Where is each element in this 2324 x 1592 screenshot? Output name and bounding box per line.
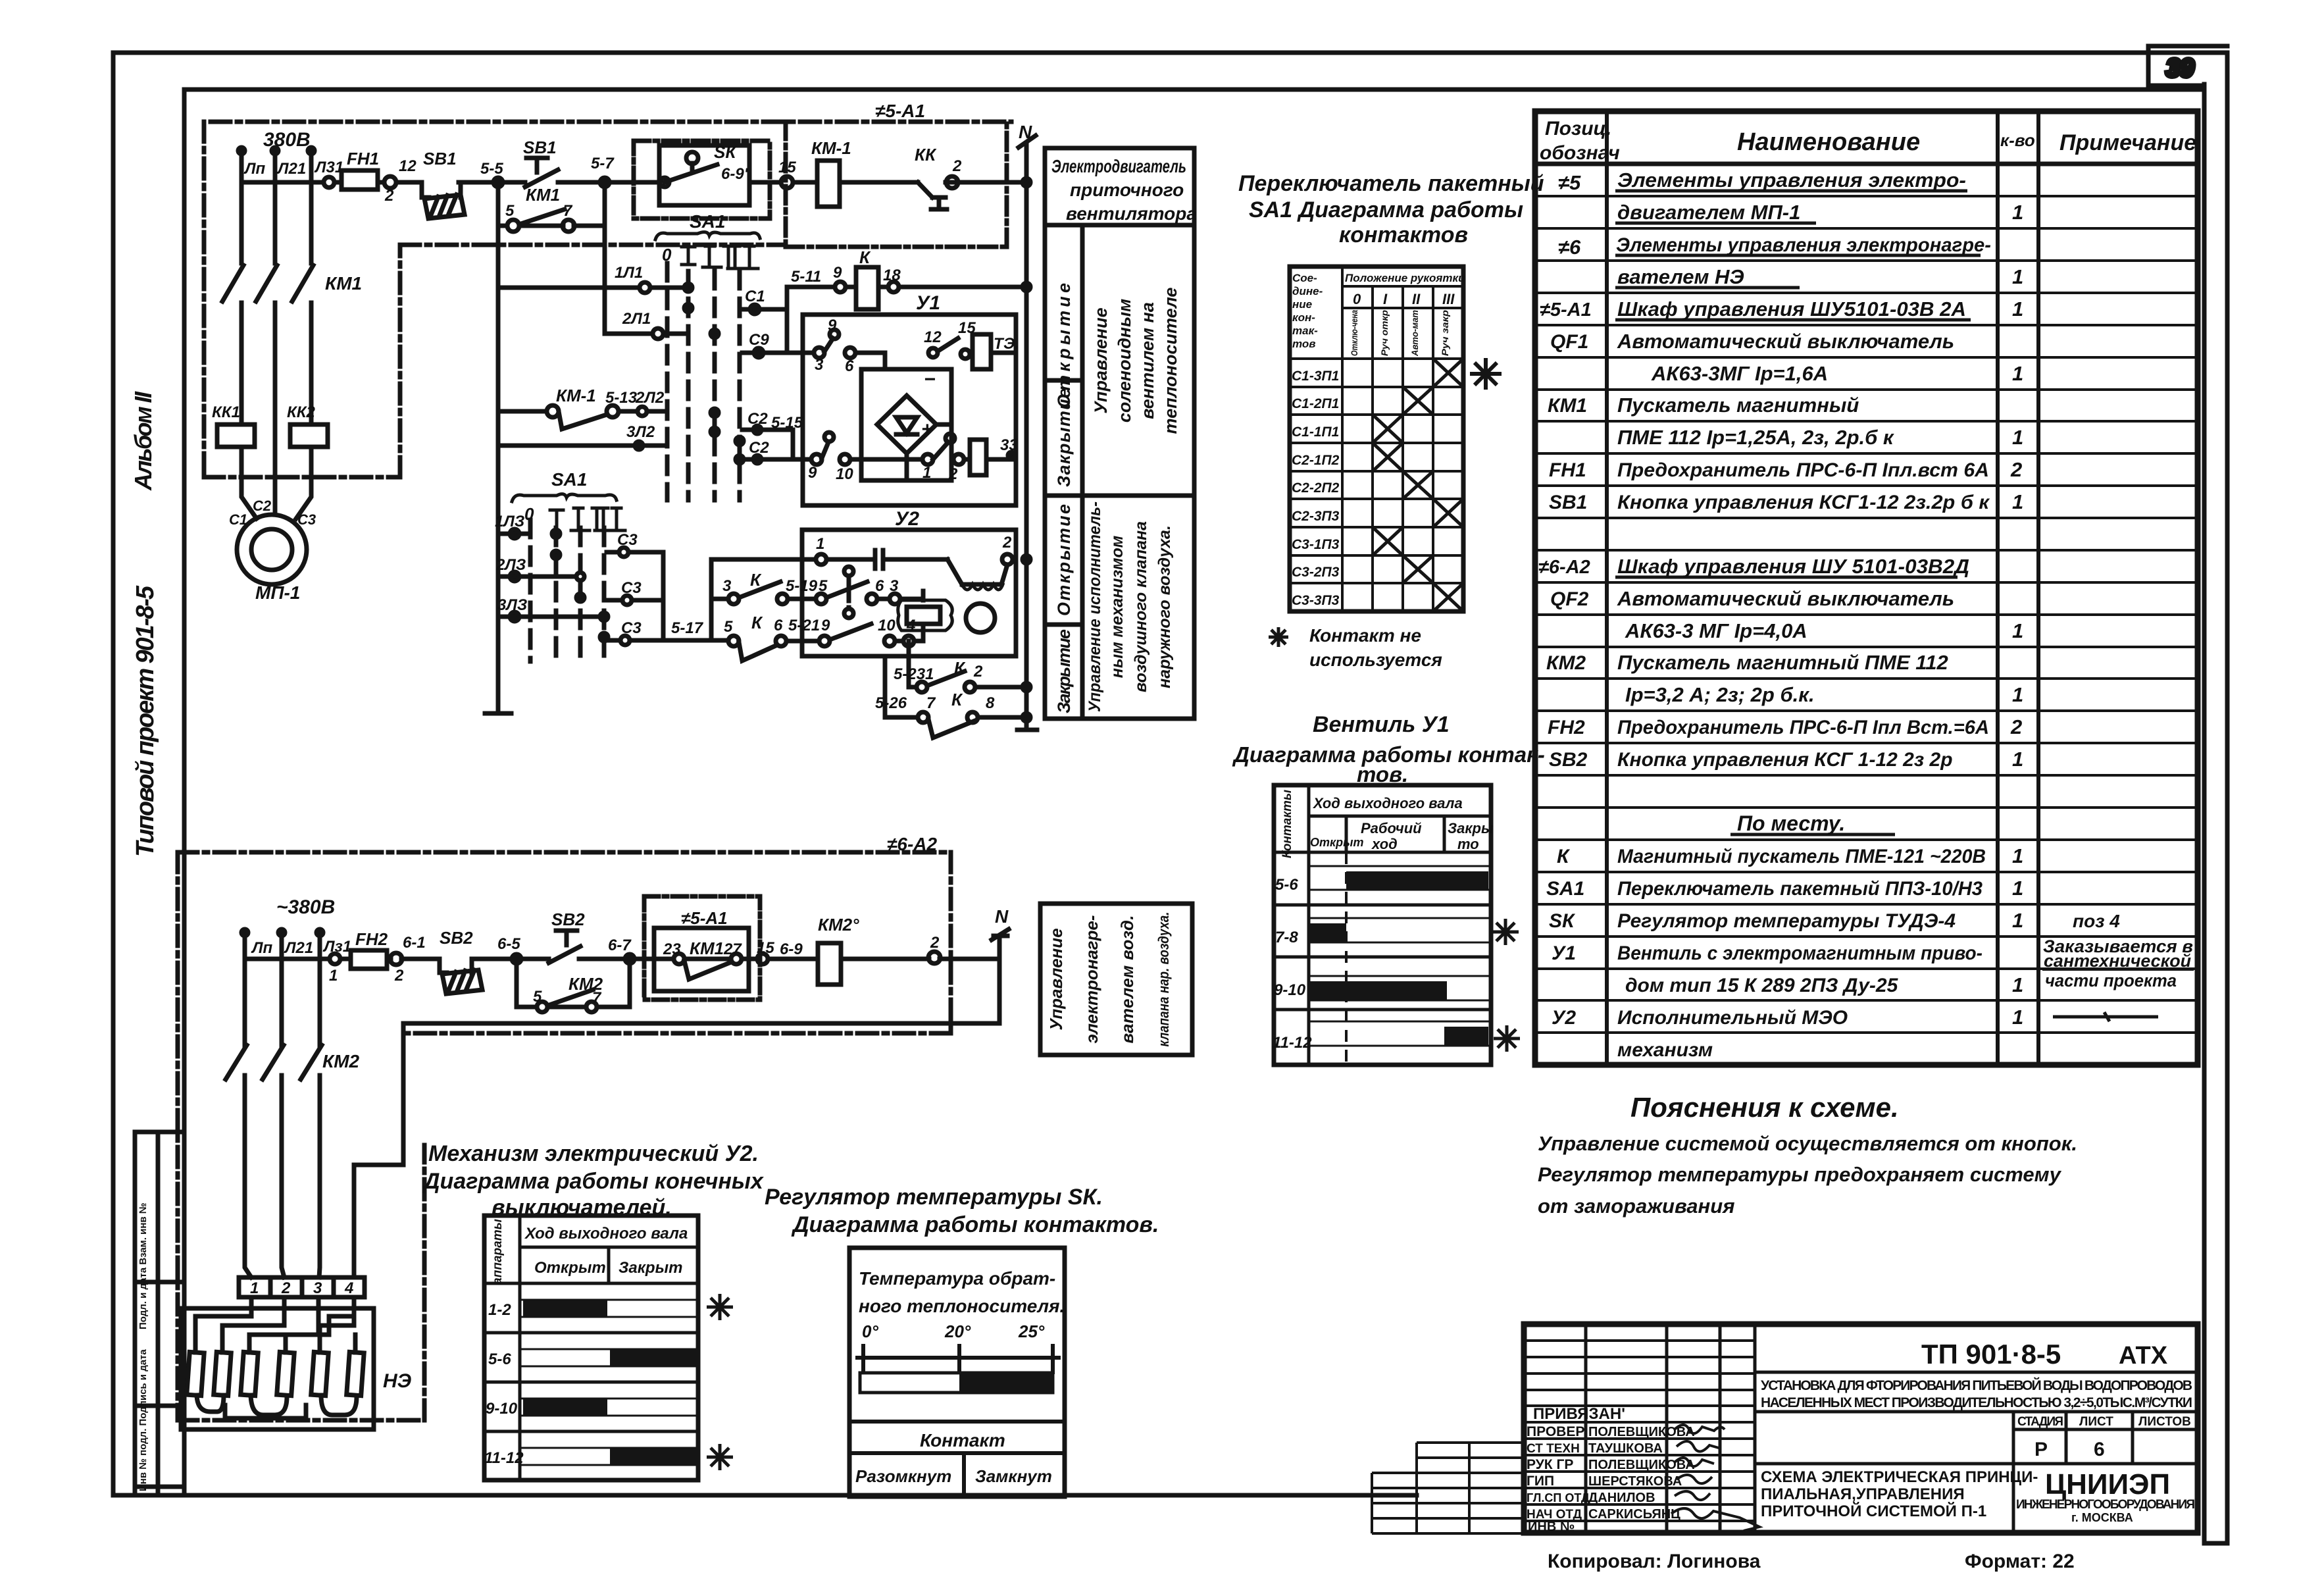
svg-text:САРКИСЬЯНЦ: САРКИСЬЯНЦ bbox=[1588, 1507, 1680, 1522]
svg-text:FН1: FН1 bbox=[1549, 459, 1586, 481]
component list table bbox=[1535, 111, 2198, 1065]
svg-text:вателем НЭ: вателем НЭ bbox=[1617, 265, 1744, 288]
svg-text:Магнитный пускатель ПМЕ-121 ~2: Магнитный пускатель ПМЕ-121 ~220В bbox=[1617, 846, 1986, 867]
svg-text:2: 2 bbox=[281, 1279, 291, 1297]
button SB2 break contact bbox=[440, 959, 482, 994]
svg-text:вентилятора: вентилятора bbox=[1066, 203, 1197, 224]
cabinet box 5-A1 dash-dot bbox=[786, 122, 1007, 247]
function panel upper bbox=[1045, 148, 1194, 719]
svg-text:1: 1 bbox=[2012, 490, 2023, 513]
return wire from N bbox=[354, 1023, 999, 1277]
svg-text:г. МОСКВА: г. МОСКВА bbox=[2071, 1511, 2133, 1524]
svg-text:НЭ: НЭ bbox=[383, 1370, 412, 1392]
svg-text:дине-: дине- bbox=[1292, 285, 1323, 297]
svg-text:5-6: 5-6 bbox=[1275, 876, 1298, 894]
button SB1 make contact bbox=[525, 158, 558, 187]
svg-text:0: 0 bbox=[1353, 291, 1361, 307]
capacitor bbox=[875, 550, 883, 569]
node 6-1 bbox=[390, 953, 402, 965]
svg-text:ЦНИИЭП: ЦНИИЭП bbox=[2045, 1468, 2170, 1501]
svg-text:39: 39 bbox=[2166, 55, 2194, 82]
node 5-7 junction bbox=[600, 178, 609, 187]
svg-text:380В: 380В bbox=[263, 129, 311, 151]
svg-text:Открыт: Открыт bbox=[534, 1259, 606, 1277]
svg-text:электронагре-: электронагре- bbox=[1082, 915, 1101, 1044]
svg-text:5-19: 5-19 bbox=[786, 577, 818, 595]
svg-text:так-: так- bbox=[1292, 324, 1318, 337]
svg-text:0°: 0° bbox=[862, 1322, 878, 1341]
svg-text:1: 1 bbox=[2012, 265, 2023, 288]
svg-text:≠5-А1: ≠5-А1 bbox=[875, 101, 925, 121]
svg-text:ПРИТОЧНОЙ СИСТЕМОЙ П-1: ПРИТОЧНОЙ СИСТЕМОЙ П-1 bbox=[1761, 1502, 1986, 1520]
svg-text:от замораживания: от замораживания bbox=[1538, 1194, 1734, 1218]
SA1 contact diagram table bbox=[1290, 267, 1463, 611]
svg-text:ным механизмом: ным механизмом bbox=[1108, 536, 1126, 679]
svg-text:С3-3П3: С3-3П3 bbox=[1292, 593, 1340, 608]
svg-text:2: 2 bbox=[384, 187, 394, 205]
svg-text:3: 3 bbox=[313, 1279, 322, 1297]
svg-text:к-во: к-во bbox=[2000, 130, 2035, 150]
svg-text:11-12: 11-12 bbox=[484, 1449, 524, 1467]
svg-text:С2: С2 bbox=[749, 439, 769, 457]
wire 5-7 drop bbox=[603, 226, 607, 334]
svg-text:Управление исполнитель-: Управление исполнитель- bbox=[1086, 501, 1104, 712]
svg-text:С1-3П1: С1-3П1 bbox=[1292, 369, 1339, 384]
svg-text:5-26: 5-26 bbox=[875, 694, 907, 712]
svg-text:У1: У1 bbox=[1552, 942, 1576, 964]
fuse FH2 bbox=[351, 950, 387, 969]
svg-text:1: 1 bbox=[2012, 297, 2023, 321]
wire C1 feed bbox=[741, 287, 787, 353]
thermal element KK1 bbox=[217, 424, 255, 447]
svg-text:23: 23 bbox=[663, 940, 681, 958]
svg-text:~380В: ~380В bbox=[276, 896, 335, 918]
svg-text:приточного: приточного bbox=[1070, 180, 1184, 200]
svg-text:Автоматический выключатель: Автоматический выключатель bbox=[1617, 587, 1954, 610]
svg-text:КК1: КК1 bbox=[212, 403, 240, 421]
title block bbox=[1372, 1324, 2198, 1533]
svg-text:2: 2 bbox=[1002, 534, 1012, 552]
dash-dot mid boundary of cabinet 5 bbox=[400, 243, 786, 247]
svg-text:наружного воздуха.: наружного воздуха. bbox=[1155, 525, 1174, 688]
svg-text:0: 0 bbox=[524, 504, 534, 524]
svg-text:Альбом II: Альбом II bbox=[130, 391, 157, 491]
neutral N lower bbox=[992, 929, 1009, 1023]
svg-text:SВ2: SВ2 bbox=[551, 910, 585, 929]
svg-text:1: 1 bbox=[250, 1279, 259, 1297]
svg-text:Переключатель пакетный: Переключатель пакетный bbox=[1238, 171, 1544, 196]
node 2 bbox=[946, 176, 958, 188]
svg-text:ДАНИЛОВ: ДАНИЛОВ bbox=[1588, 1491, 1655, 1505]
svg-text:С2: С2 bbox=[253, 498, 272, 514]
svg-text:1: 1 bbox=[2012, 619, 2023, 642]
node 6-5 junction bbox=[512, 954, 521, 963]
svg-text:Кнопка управления КСГ 1-12 2з: Кнопка управления КСГ 1-12 2з 2р bbox=[1617, 749, 1953, 771]
svg-text:АК63-3 МГ Iр=4,0А: АК63-3 МГ Iр=4,0А bbox=[1625, 619, 1807, 642]
svg-text:≠5-А1: ≠5-А1 bbox=[681, 908, 728, 928]
wire C3 row c / 5-17 bbox=[607, 638, 711, 643]
svg-text:вентилем на: вентилем на bbox=[1138, 302, 1157, 419]
asterisk mark bbox=[707, 1294, 733, 1320]
svg-text:Копировал: Логинова: Копировал: Логинова bbox=[1548, 1551, 1761, 1572]
contactor KM1 main contacts bbox=[222, 265, 313, 301]
svg-text:6-1: 6-1 bbox=[403, 934, 426, 952]
svg-text:3: 3 bbox=[815, 356, 824, 374]
svg-text:5-21: 5-21 bbox=[788, 617, 820, 634]
svg-text:5-13: 5-13 bbox=[605, 389, 638, 407]
motor MP-1 bbox=[237, 515, 307, 584]
svg-text:≠6-А2: ≠6-А2 bbox=[887, 834, 937, 854]
svg-text:+: + bbox=[921, 419, 933, 440]
cabinet 5-A1 small dash-dot bbox=[644, 896, 760, 1000]
svg-text:дом тип 15 К 289 2ПЗ Ду-25: дом тип 15 К 289 2ПЗ Ду-25 bbox=[1625, 975, 1899, 996]
svg-text:обознач: обознач bbox=[1540, 142, 1620, 164]
svg-text:25°: 25° bbox=[1018, 1322, 1045, 1341]
svg-text:33: 33 bbox=[1000, 436, 1018, 454]
svg-text:0: 0 bbox=[662, 245, 672, 265]
svg-text:1: 1 bbox=[2012, 683, 2023, 706]
svg-text:Примечание: Примечание bbox=[2059, 130, 2196, 155]
switch SA1 columns upper bbox=[655, 232, 760, 240]
U1 bar 9-10 bbox=[1310, 981, 1447, 1000]
relay of U2 bbox=[907, 607, 940, 624]
svg-text:SК: SК bbox=[714, 142, 737, 162]
svg-text:Регулятор температуры ТУДЭ-4: Регулятор температуры ТУДЭ-4 bbox=[1617, 910, 1956, 932]
svg-text:аппараты: аппараты bbox=[491, 1219, 505, 1285]
svg-text:20°: 20° bbox=[944, 1322, 971, 1341]
svg-text:III: III bbox=[1442, 291, 1455, 307]
svg-text:1-2: 1-2 bbox=[488, 1301, 511, 1319]
svg-text:С2: С2 bbox=[747, 410, 768, 428]
relay contact row 1-2 bbox=[933, 442, 1011, 459]
svg-text:С2-2П2: С2-2П2 bbox=[1292, 480, 1340, 496]
fuse FH1 bbox=[341, 170, 378, 190]
wire row 3L3 bbox=[498, 615, 601, 619]
svg-text:СТ ТЕХН: СТ ТЕХН bbox=[1527, 1442, 1580, 1456]
asterisk mark bbox=[1269, 627, 1288, 647]
dash-dot box 6-A2 right/bottom bbox=[408, 852, 951, 1033]
mechanism U2 box bbox=[802, 530, 1016, 656]
svg-text:К: К bbox=[954, 658, 966, 678]
svg-text:SК: SК bbox=[1549, 910, 1576, 932]
svg-text:Регулятор температуры SК.: Регулятор температуры SК. bbox=[765, 1185, 1103, 1210]
node 2 lower bbox=[928, 952, 940, 963]
svg-text:то: то bbox=[1457, 836, 1479, 852]
underlines bbox=[1615, 191, 1981, 835]
heater box NE bbox=[181, 1308, 374, 1429]
svg-text:I: I bbox=[1383, 291, 1388, 307]
svg-text:Предохранитель ПРС-6-П Iпл.вс: Предохранитель ПРС-6-П Iпл.вст 6А bbox=[1617, 459, 1989, 481]
svg-text:ШЕРСТЯКОВА: ШЕРСТЯКОВА bbox=[1588, 1474, 1682, 1489]
rail wire 5 series bbox=[485, 226, 511, 713]
svg-text:ЛИСТОВ: ЛИСТОВ bbox=[2138, 1415, 2191, 1429]
svg-text:Кнопка управления КСГ1-12 2з.2: Кнопка управления КСГ1-12 2з.2р б к bbox=[1617, 492, 1990, 513]
svg-text:НАСЕЛЕННЫХ МЕСТ ПРОИЗВОДИТЕЛЬН: НАСЕЛЕННЫХ МЕСТ ПРОИЗВОДИТЕЛЬНОСТЬЮ 3,2÷… bbox=[1761, 1395, 2192, 1410]
svg-text:К: К bbox=[951, 690, 963, 709]
wire relay drops bbox=[921, 591, 926, 641]
svg-text:10: 10 bbox=[878, 617, 896, 634]
svg-text:6-7: 6-7 bbox=[608, 937, 632, 954]
svg-text:Р: Р bbox=[2034, 1439, 2048, 1460]
svg-text:Л31: Л31 bbox=[314, 159, 343, 176]
svg-text:1: 1 bbox=[2012, 909, 2023, 932]
phase bus lower L2 bbox=[282, 931, 284, 1277]
svg-text:Контакты: Контакты bbox=[1280, 790, 1294, 858]
svg-text:АТХ: АТХ bbox=[2119, 1342, 2168, 1370]
svg-text:Элементы управления электронаг: Элементы управления электронагре- bbox=[1616, 234, 1991, 256]
svg-text:Л21: Л21 bbox=[276, 160, 306, 178]
svg-text:С1: С1 bbox=[229, 511, 247, 528]
svg-text:Пояснения к схеме.: Пояснения к схеме. bbox=[1630, 1092, 1899, 1123]
svg-text:Инв № подл. Подпись и дата: Инв № подл. Подпись и дата bbox=[138, 1349, 149, 1491]
svg-text:С1: С1 bbox=[745, 288, 765, 305]
svg-text:ПИАЛЬНАЯ,УПРАВЛЕНИЯ: ПИАЛЬНАЯ,УПРАВЛЕНИЯ bbox=[1761, 1485, 1965, 1503]
heater wiring top bbox=[195, 1297, 355, 1352]
svg-text:Переключатель пакетный ППЗ-10/: Переключатель пакетный ППЗ-10/Н3 bbox=[1617, 878, 1983, 900]
svg-text:С3: С3 bbox=[621, 579, 642, 597]
svg-text:ПМЕ 112 Iр=1,25А, 2з, 2р.б: ПМЕ 112 Iр=1,25А, 2з, 2р.б к bbox=[1617, 426, 1894, 449]
svg-text:Пускатель магнитный: Пускатель магнитный bbox=[1617, 394, 1859, 417]
svg-text:SА1: SА1 bbox=[690, 211, 725, 232]
svg-text:Руч откр: Руч откр bbox=[1379, 310, 1390, 356]
phase bus lower L1 bbox=[245, 931, 251, 1277]
svg-text:КМ2: КМ2 bbox=[1546, 652, 1586, 674]
contact SA1 II bbox=[711, 330, 719, 338]
svg-text:27: 27 bbox=[723, 940, 742, 958]
phase bus L2 bbox=[273, 149, 278, 515]
svg-text:КМ1: КМ1 bbox=[526, 185, 560, 205]
svg-text:1: 1 bbox=[2012, 877, 2023, 900]
svg-text:Диаграмма работы контактов.: Диаграмма работы контактов. bbox=[791, 1212, 1159, 1237]
signatures bbox=[1671, 1425, 1759, 1531]
svg-text:Закрытие: Закрытие bbox=[1054, 388, 1074, 487]
svg-text:Элементы управления электро-: Элементы управления электро- bbox=[1617, 168, 1966, 192]
svg-text:кон-: кон- bbox=[1292, 311, 1315, 324]
svg-text:9-10: 9-10 bbox=[1274, 981, 1306, 999]
wire K block left rail bbox=[709, 559, 714, 640]
svg-text:Пускатель магнитный ПМЕ 112: Пускатель магнитный ПМЕ 112 bbox=[1617, 651, 1948, 674]
wire U2 row 1 with capacitor bbox=[711, 559, 1007, 584]
svg-text:≠6-А2: ≠6-А2 bbox=[1538, 557, 1590, 578]
svg-text:15: 15 bbox=[757, 939, 774, 957]
coil KM-1 bbox=[817, 161, 840, 207]
heater elements bbox=[187, 1352, 204, 1395]
svg-text:С3: С3 bbox=[621, 619, 642, 637]
svg-text:2Л1: 2Л1 bbox=[622, 310, 651, 328]
svg-text:поз 4: поз 4 bbox=[2073, 911, 2120, 931]
svg-text:12: 12 bbox=[924, 328, 942, 346]
svg-text:FН1: FН1 bbox=[347, 149, 379, 168]
svg-text:SВ1: SВ1 bbox=[423, 149, 457, 168]
svg-text:контактов: контактов bbox=[1339, 222, 1468, 247]
svg-text:12: 12 bbox=[399, 157, 417, 175]
svg-text:N: N bbox=[1019, 122, 1032, 142]
svg-text:Закрыт: Закрыт bbox=[619, 1259, 682, 1277]
wire to contact K 5-231 bbox=[909, 641, 1026, 687]
svg-text:двигателем МП-1: двигателем МП-1 bbox=[1617, 201, 1800, 224]
svg-text:клапана нар. воздуха.: клапана нар. воздуха. bbox=[1155, 912, 1172, 1047]
svg-text:С2-1П2: С2-1П2 bbox=[1292, 453, 1340, 468]
svg-text:II: II bbox=[1412, 291, 1421, 307]
svg-text:SА1: SА1 bbox=[551, 469, 587, 490]
svg-text:Диаграмма работы конечных: Диаграмма работы конечных bbox=[422, 1169, 765, 1194]
svg-text:2: 2 bbox=[2010, 715, 2022, 738]
svg-text:АК63-3МГ Iр=1,6А: АК63-3МГ Iр=1,6А bbox=[1651, 362, 1828, 385]
wire row 2L1 bbox=[605, 332, 686, 336]
svg-text:5-7: 5-7 bbox=[591, 155, 615, 172]
svg-text:≠5: ≠5 bbox=[1558, 171, 1581, 194]
svg-text:1: 1 bbox=[2012, 362, 2023, 385]
valve U1 box bbox=[803, 315, 1016, 505]
svg-text:2: 2 bbox=[952, 157, 962, 175]
svg-text:ТАУШКОВА: ТАУШКОВА bbox=[1588, 1441, 1663, 1456]
wire row 3L2 bbox=[498, 444, 666, 448]
svg-text:ТЭ.: ТЭ. bbox=[994, 335, 1019, 353]
svg-text:Предохранитель ПРС-6-П Iпл Вс: Предохранитель ПРС-6-П Iпл Вст.=6А bbox=[1617, 717, 1989, 738]
svg-text:5: 5 bbox=[505, 202, 515, 220]
svg-text:2Л2: 2Л2 bbox=[635, 389, 665, 407]
svg-text:≠6: ≠6 bbox=[1558, 236, 1581, 259]
svg-text:Типовой проект 901-8-5: Типовой проект 901-8-5 bbox=[132, 585, 159, 857]
valve U1 diagram table bbox=[1274, 785, 1491, 1065]
svg-text:6-9': 6-9' bbox=[721, 165, 749, 183]
coil K row 5-11 bbox=[787, 285, 1026, 290]
svg-text:С9: С9 bbox=[749, 331, 769, 349]
svg-text:5-17: 5-17 bbox=[671, 619, 704, 637]
rectifier bridge of U1 bbox=[861, 369, 951, 480]
svg-text:Температура обрат-: Температура обрат- bbox=[859, 1268, 1055, 1289]
svg-text:2: 2 bbox=[2010, 458, 2022, 481]
svg-text:Руч закр: Руч закр bbox=[1440, 309, 1450, 356]
svg-text:3: 3 bbox=[722, 577, 732, 595]
svg-text:5-231: 5-231 bbox=[894, 665, 934, 683]
contact K row 5 break bbox=[711, 624, 923, 661]
neutral rail N bbox=[1017, 136, 1037, 730]
svg-text:Открытие: Открытие bbox=[1054, 504, 1074, 616]
svg-text:5-11: 5-11 bbox=[791, 268, 821, 286]
svg-text:К: К bbox=[750, 570, 762, 590]
node 5-5 junction bbox=[493, 178, 503, 187]
dash-dot boundary 6 top bbox=[178, 850, 951, 855]
svg-text:9: 9 bbox=[828, 317, 837, 334]
svg-text:К: К bbox=[1557, 846, 1571, 867]
svg-text:КМ1: КМ1 bbox=[1548, 395, 1587, 417]
svg-text:9: 9 bbox=[808, 464, 817, 482]
contact SA1 III bbox=[736, 437, 744, 445]
node 1 terminal bbox=[330, 954, 340, 964]
svg-text:тов.: тов. bbox=[1357, 762, 1408, 786]
svg-text:Отклю-чена: Отклю-чена bbox=[1349, 310, 1359, 356]
wire row 1L3 bbox=[498, 532, 530, 536]
svg-text:9: 9 bbox=[833, 264, 842, 282]
svg-text:КМ2: КМ2 bbox=[322, 1051, 360, 1071]
svg-text:ТП 901·8-5: ТП 901·8-5 bbox=[1921, 1339, 2061, 1370]
svg-text:5-5: 5-5 bbox=[480, 160, 503, 178]
U1 bar 7-8 bbox=[1310, 923, 1346, 942]
thermal element KK2 bbox=[290, 424, 328, 447]
svg-text:Вентиль У1: Вентиль У1 bbox=[1313, 712, 1450, 737]
svg-text:2: 2 bbox=[973, 663, 983, 680]
svg-text:SА1 Диаграмма работы: SА1 Диаграмма работы bbox=[1249, 197, 1523, 222]
svg-text:1Л1: 1Л1 bbox=[615, 264, 643, 282]
svg-text:≠5-А1: ≠5-А1 bbox=[1540, 299, 1592, 321]
svg-text:У1: У1 bbox=[916, 292, 940, 314]
asterisk mark bbox=[707, 1444, 733, 1470]
svg-text:Открыт: Открыт bbox=[1310, 836, 1364, 849]
svg-text:3: 3 bbox=[890, 577, 899, 595]
svg-text:К: К bbox=[751, 613, 763, 632]
svg-text:SВ1: SВ1 bbox=[523, 138, 557, 157]
function panel lower bbox=[1040, 904, 1192, 1055]
svg-text:используется: используется bbox=[1309, 650, 1442, 670]
svg-text:5: 5 bbox=[533, 988, 542, 1006]
svg-text:УСТАНОВКА ДЛЯ ФТОРИРОВАНИЯ ПИТ: УСТАНОВКА ДЛЯ ФТОРИРОВАНИЯ ПИТЬЕВОЙ ВОДЫ… bbox=[1761, 1377, 2192, 1393]
svg-text:1: 1 bbox=[2012, 1006, 2023, 1029]
svg-text:2ЛЗ: 2ЛЗ bbox=[495, 556, 526, 574]
svg-text:тов: тов bbox=[1292, 338, 1316, 350]
svg-text:1: 1 bbox=[2012, 426, 2023, 449]
svg-text:КМ2°: КМ2° bbox=[818, 915, 859, 935]
svg-text:ИНЖЕНЕРНОГООБОРУДОВАНИЯ: ИНЖЕНЕРНОГООБОРУДОВАНИЯ bbox=[2016, 1498, 2195, 1512]
svg-text:Закрытие: Закрытие bbox=[1054, 629, 1074, 713]
svg-text:С1-1П1: С1-1П1 bbox=[1292, 424, 1339, 440]
dash-dot left boundary of power section bbox=[204, 122, 400, 477]
svg-text:Авто-мат: Авто-мат bbox=[1409, 310, 1420, 357]
wire to contact K 5-26 bbox=[885, 656, 1026, 738]
svg-text:С3-2П3: С3-2П3 bbox=[1292, 565, 1340, 580]
contactor KM2 aux bypass bbox=[517, 959, 630, 1007]
wire C3 row b bbox=[609, 598, 663, 603]
contact TE row bbox=[938, 338, 1016, 354]
svg-text:1: 1 bbox=[816, 535, 824, 553]
wire C2 row 9-10 bbox=[742, 442, 922, 459]
svg-text:ИНВ №: ИНВ № bbox=[1528, 1520, 1575, 1534]
regulator SK enclosure dash-dot bbox=[634, 141, 770, 218]
page number box 39 bbox=[2148, 46, 2227, 86]
svg-text:ЛИСТ: ЛИСТ bbox=[2079, 1415, 2113, 1429]
asterisk mark bbox=[1494, 1025, 1520, 1052]
svg-text:Iр=3,2 А; 2з; 2р б.к.: Iр=3,2 А; 2з; 2р б.к. bbox=[1625, 683, 1815, 706]
svg-text:Автоматический выключатель: Автоматический выключатель bbox=[1617, 330, 1954, 353]
svg-text:ход: ход bbox=[1371, 836, 1398, 852]
svg-text:СХЕМА ЭЛЕКТРИЧЕСКАЯ ПРИНЦИ-: СХЕМА ЭЛЕКТРИЧЕСКАЯ ПРИНЦИ- bbox=[1761, 1468, 2038, 1486]
svg-text:1: 1 bbox=[2012, 844, 2023, 867]
svg-text:2: 2 bbox=[394, 967, 404, 985]
coil K bbox=[856, 267, 878, 309]
svg-text:SВ2: SВ2 bbox=[1549, 749, 1588, 771]
U1 bar 5-6 bbox=[1346, 871, 1488, 890]
svg-text:1: 1 bbox=[2012, 748, 2023, 771]
svg-text:7: 7 bbox=[563, 202, 573, 220]
node 15 bbox=[781, 176, 793, 188]
svg-text:9-10: 9-10 bbox=[486, 1400, 518, 1418]
heater TE bbox=[973, 334, 991, 369]
svg-text:3Л2: 3Л2 bbox=[626, 423, 655, 441]
coil KM2 bbox=[818, 943, 841, 985]
node 12 bbox=[384, 176, 396, 188]
svg-text:Механизм электрический У2.: Механизм электрический У2. bbox=[428, 1141, 759, 1166]
svg-text:Управление: Управление bbox=[1091, 307, 1111, 413]
svg-text:1: 1 bbox=[922, 464, 931, 482]
svg-text:5-6: 5-6 bbox=[488, 1350, 511, 1368]
svg-text:N: N bbox=[995, 906, 1009, 927]
contact KM-1 row 5-13 bbox=[498, 411, 666, 429]
svg-text:По месту.: По месту. bbox=[1737, 811, 1845, 835]
contactor KM1 aux contact row bbox=[498, 182, 605, 226]
svg-text:С2-3П3: С2-3П3 bbox=[1292, 509, 1340, 524]
dash-dot boundary 6 left bbox=[178, 852, 424, 1420]
svg-text:Вентиль с электромагнитным при: Вентиль с электромагнитным приво- bbox=[1617, 942, 1983, 964]
